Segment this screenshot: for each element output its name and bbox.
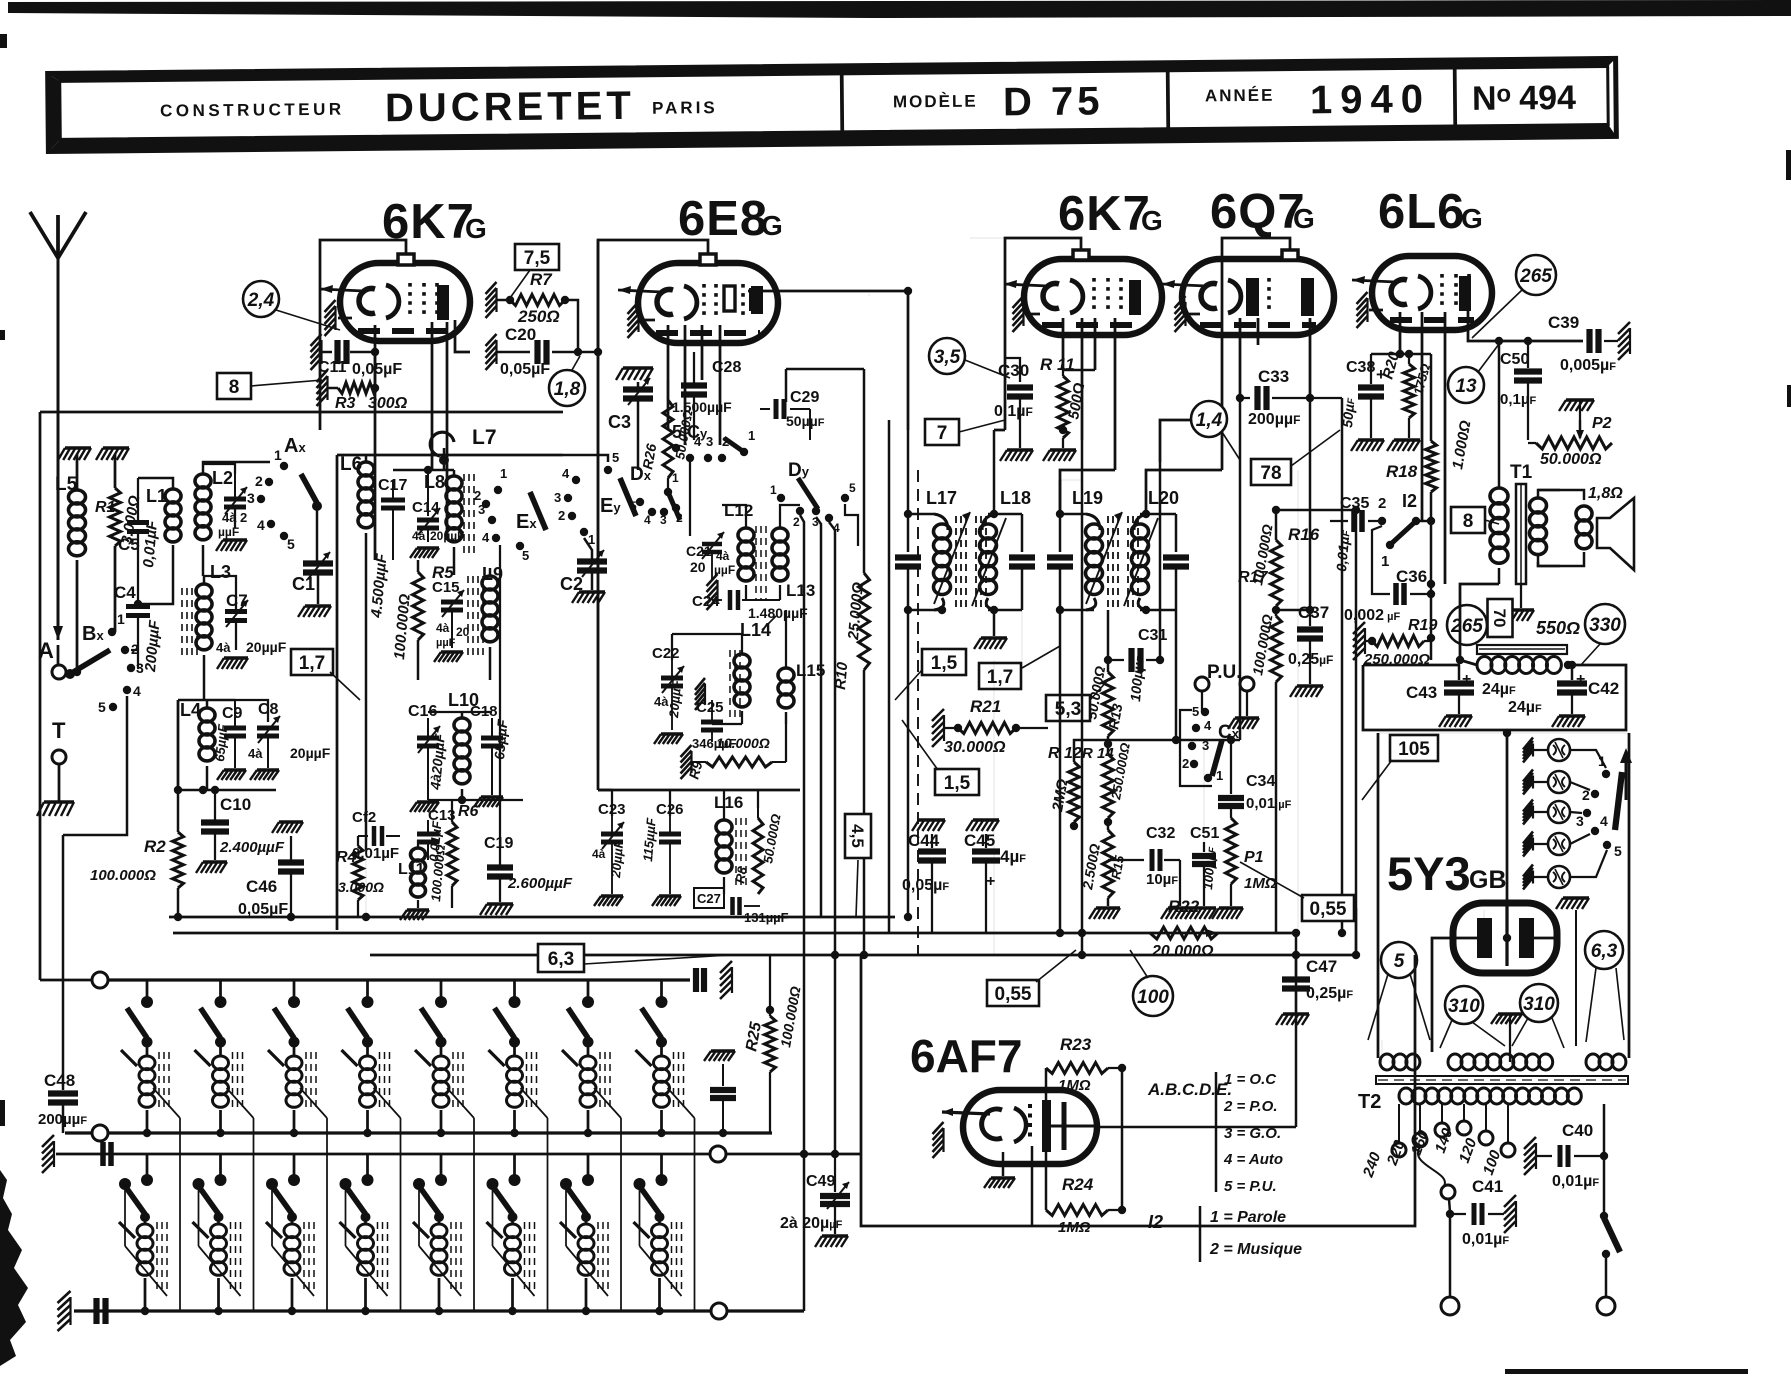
capacitor C-L19 (1059, 514, 1062, 552)
trimmer C6 (224, 497, 246, 502)
bank row1 unit7 lever (568, 1008, 588, 1038)
scan artifact top bar (8, 0, 1791, 18)
svg-text:I2: I2 (1148, 1212, 1163, 1232)
bank row1 unit4 lever (348, 1008, 368, 1038)
bank row1 unit1 core dashes (158, 1052, 160, 1110)
svg-text:1MΩ: 1MΩ (1058, 1077, 1091, 1094)
boxed 7 (925, 419, 959, 445)
circled 1,4 (1191, 401, 1227, 437)
svg-text:R1: R1 (95, 499, 116, 516)
wire L18 ground (993, 610, 996, 636)
coil L2 (202, 464, 205, 474)
bank row2 unit2 bottom (217, 1278, 220, 1311)
svg-text:1: 1 (770, 483, 777, 497)
bank row2 unit1 coil (144, 1217, 147, 1224)
svg-text:C41: C41 (1472, 1177, 1503, 1196)
svg-text:T1: T1 (1510, 462, 1533, 483)
svg-text:8: 8 (229, 377, 240, 398)
wire V1 screen lead (431, 322, 434, 470)
switch Dy lever (798, 478, 818, 509)
svg-text:C45: C45 (964, 831, 995, 850)
IF can L17-L18 top wire (908, 513, 934, 516)
switch Ax contact 3 (257, 495, 265, 503)
svg-text:R18: R18 (1386, 462, 1418, 481)
svg-text:C19: C19 (484, 835, 513, 852)
coil L9 (489, 568, 492, 576)
capacitor C46 (278, 859, 304, 865)
boxed 1,5 b (935, 769, 979, 795)
svg-text:0,05µF: 0,05µF (352, 361, 402, 378)
bus1 y980 (92, 978, 690, 981)
wire Ey top (563, 455, 608, 462)
legend bar1 (1215, 1072, 1218, 1192)
bank row1 unit5 bottom (440, 1110, 443, 1133)
svg-text:L12: L12 (724, 501, 753, 520)
svg-text:C20: C20 (505, 325, 536, 344)
svg-text:4à: 4à (412, 529, 426, 543)
switch Cx contact 5 (1201, 708, 1209, 716)
wire C26 stub (669, 790, 671, 816)
wire V1 cathode down (374, 325, 377, 560)
svg-text:3: 3 (706, 434, 713, 449)
hatch C24 (707, 574, 718, 610)
svg-text:50.000Ω: 50.000Ω (1540, 451, 1602, 468)
bank row2 unit7 lever (566, 1186, 586, 1214)
svg-text:C48: C48 (44, 1071, 75, 1090)
resistor R16 (1275, 510, 1278, 540)
leader 18 (572, 356, 580, 370)
svg-text:R16: R16 (1288, 525, 1320, 544)
wire left box bottom (39, 412, 41, 980)
wire L17 bottom (908, 609, 942, 612)
scan artifact left notch (0, 34, 7, 48)
wire R23R24 right (1121, 1068, 1124, 1210)
bank row1 unit7 stub (587, 980, 590, 998)
switch Dy contacts (777, 494, 785, 502)
wire C38-R20 top (1371, 353, 1431, 356)
svg-text:5: 5 (1192, 704, 1199, 719)
bank row2 unit6 core dashes (524, 1222, 526, 1290)
bus row1 bottom y1133 (65, 1131, 772, 1134)
boxed 1,7 left (291, 649, 333, 675)
leader 78 (1291, 430, 1340, 466)
bank row2 unit7 stub (587, 1154, 590, 1176)
coil L6 (365, 455, 368, 462)
wire L18 bottom (988, 609, 1022, 612)
svg-text:L17: L17 (926, 488, 957, 508)
ground C23 (601, 894, 623, 897)
svg-text:1940: 1940 (1310, 77, 1431, 122)
coil L13 (779, 522, 781, 528)
wire V3 grid cap loop (1005, 238, 1081, 330)
bank row2 unit5 stub (440, 1154, 443, 1176)
svg-text:4à: 4à (716, 549, 730, 563)
vertical x804 (800, 515, 804, 1311)
svg-text:P.U.: P.U. (1207, 662, 1242, 683)
svg-text:3.000Ω: 3.000Ω (338, 879, 384, 895)
bank row1 unit6 lever (495, 1008, 515, 1038)
svg-text:1,7: 1,7 (299, 653, 325, 674)
svg-text:ANNÉE: ANNÉE (1205, 86, 1275, 106)
bank row2 unit6 stub (513, 1154, 516, 1176)
resistor R13 (1103, 672, 1114, 736)
svg-text:1,8: 1,8 (554, 379, 581, 400)
tube V5 hatch (1357, 292, 1368, 328)
bank row2 unit4 core dashes (377, 1222, 379, 1290)
bank row1 unit6 bottom (513, 1110, 516, 1133)
wire B+ down (1506, 730, 1509, 900)
leader 63box (584, 955, 730, 964)
boxed 1,7 b (979, 663, 1021, 689)
switch Bx contact 5 (109, 703, 117, 711)
vertical x821 (816, 517, 821, 917)
ground C16 (417, 800, 439, 803)
svg-text:R2: R2 (144, 837, 166, 856)
svg-text:L7: L7 (472, 426, 497, 449)
tube V4 hatch (1175, 296, 1186, 332)
hatch R7 (486, 282, 497, 318)
node C20-grid (574, 348, 582, 356)
wire V3 plate down (1114, 318, 1117, 470)
svg-text:5: 5 (1614, 843, 1622, 859)
tuner box outline (40, 411, 563, 414)
tube V4 cathode lead (1187, 313, 1200, 316)
wire R16 top (1276, 509, 1356, 512)
wire L16 stub (723, 790, 725, 814)
wire Dy5 (845, 504, 858, 546)
svg-text:1,5: 1,5 (931, 653, 958, 674)
wire L20 grid up (1146, 470, 1222, 514)
coil L18 (982, 514, 996, 530)
boxed 0,55 left (987, 980, 1039, 1006)
lamp 1 wire (1570, 750, 1606, 768)
wire left down to C48 (62, 835, 65, 980)
svg-text:C44: C44 (908, 831, 940, 850)
svg-text:5: 5 (287, 536, 295, 552)
node R3 right (371, 384, 379, 392)
wire C32 (1108, 859, 1130, 861)
resistor R3 (328, 387, 338, 390)
legend bar2 (1199, 1206, 1202, 1262)
svg-text:C9: C9 (222, 705, 243, 722)
svg-text:2: 2 (558, 508, 565, 523)
leaders 310 (1440, 1020, 1452, 1048)
tube V7 gnd lead (1002, 1152, 1005, 1176)
coil L14 (741, 648, 743, 654)
circled 2,4 (243, 281, 279, 317)
svg-text:C10: C10 (220, 795, 251, 814)
terminals PU (1195, 677, 1209, 691)
resistor R20 (1408, 354, 1410, 364)
svg-text:4,5: 4,5 (848, 824, 867, 848)
terminal T ground (58, 764, 61, 802)
wire V3 screen down (1081, 318, 1084, 440)
circled 100 (1133, 976, 1173, 1016)
wire L12 top stub (722, 505, 746, 522)
svg-text:4à: 4à (592, 847, 606, 861)
bank row2 unit7 bottom (585, 1278, 588, 1311)
slash L18 (972, 518, 1006, 606)
bank row2 unit5 lever (419, 1186, 439, 1214)
circled 1,8 (549, 370, 585, 406)
svg-text:3: 3 (812, 515, 819, 529)
svg-text:G: G (761, 210, 783, 241)
svg-text:4 = Auto: 4 = Auto (1223, 1151, 1283, 1168)
wire R17-C37 (1276, 609, 1310, 612)
slash L20 (1124, 518, 1158, 606)
wire V2 plate to L17 (868, 294, 870, 296)
svg-text:C34: C34 (1246, 773, 1275, 790)
ground C2 (579, 590, 605, 593)
wire L10 top (428, 711, 492, 713)
bank row2 unit1 branch (124, 1184, 126, 1246)
leader 75 (510, 270, 530, 298)
svg-text:C51: C51 (1190, 825, 1219, 842)
dial lamp 5 (1523, 865, 1533, 890)
resistor R21 (932, 709, 944, 747)
scan artifact left blob (0, 1170, 28, 1366)
svg-text:5: 5 (1394, 951, 1405, 972)
svg-text:6K7: 6K7 (1058, 187, 1151, 241)
svg-text:200µµF: 200µµF (1248, 411, 1300, 428)
svg-text:C32: C32 (1146, 825, 1175, 842)
svg-text:G: G (1293, 203, 1315, 234)
coil L15 (785, 662, 787, 668)
svg-text:265: 265 (1519, 266, 1552, 287)
wire x1298 down (1297, 470, 1299, 933)
switch Bx contact 4 (123, 686, 131, 694)
resistor R7 (497, 299, 510, 302)
ground C6 (223, 538, 247, 541)
svg-text:4à: 4à (222, 510, 237, 525)
svg-text:1: 1 (748, 428, 755, 443)
tube V7 6AF7 (963, 1090, 1097, 1164)
svg-text:C22: C22 (652, 645, 680, 662)
wire spk bot (1538, 552, 1584, 566)
switch Dx contacts (636, 498, 644, 506)
svg-text:Dx: Dx (630, 464, 652, 485)
bank row1 unit3 lever (274, 1008, 294, 1038)
svg-text:C27: C27 (697, 891, 721, 906)
node C39a (1495, 337, 1503, 345)
wire R12 top (1074, 740, 1240, 748)
bus row2 start (42, 1135, 54, 1173)
bank row1 unit2 lever (201, 1008, 221, 1038)
wire L4-C10 (178, 789, 276, 792)
tube V3 cathode lead (1025, 313, 1040, 316)
bank row2 unit2 pivot (193, 1178, 205, 1190)
svg-text:R22: R22 (1168, 897, 1200, 916)
bank row2 unit6 branch (492, 1184, 494, 1246)
ground C19 (487, 902, 513, 905)
wire PU right gnd (1246, 691, 1248, 716)
dashed gang line (917, 470, 919, 955)
switch Ex contacts (488, 516, 496, 524)
bus y917 (169, 916, 895, 919)
bank row1 unit2 stub (219, 980, 222, 998)
boxed 70 (1488, 599, 1513, 637)
bus y933 (173, 932, 1296, 935)
T2 secondary 6,3V (1586, 1054, 1600, 1070)
svg-text:20µµF: 20µµF (430, 529, 465, 543)
ground 6,3 (1563, 896, 1589, 899)
vertical x835 (829, 522, 835, 1154)
svg-text:A.B.C.D.E.: A.B.C.D.E. (1147, 1080, 1232, 1099)
leaders 63 (1586, 968, 1596, 1042)
wire choke-left-joint (1363, 664, 1460, 667)
pot P2 (1536, 437, 1612, 449)
svg-text:4: 4 (644, 513, 651, 527)
bank row1 unit4 stub (366, 980, 369, 998)
bus y955 right (1355, 908, 1358, 955)
svg-text:R7: R7 (530, 270, 553, 289)
capacitor C45 (973, 818, 999, 821)
svg-text:2: 2 (1182, 756, 1189, 771)
svg-text:1: 1 (274, 447, 282, 463)
wire Cy4 to C21 (689, 462, 691, 536)
dial lamp 3 (1523, 800, 1533, 825)
svg-text:R3: R3 (335, 395, 356, 412)
svg-text:1,7: 1,7 (987, 667, 1013, 688)
bank row1 unit4 wire (366, 1042, 369, 1056)
svg-text:2 = Musique: 2 = Musique (1209, 1241, 1302, 1258)
circled 3,5 (929, 338, 965, 374)
bank row1 unit7 bottom (587, 1110, 590, 1133)
svg-text:C46: C46 (246, 877, 277, 896)
svg-text:C37: C37 (1298, 603, 1329, 622)
svg-text:L20: L20 (1148, 488, 1179, 508)
svg-text:5: 5 (522, 548, 529, 563)
ground C8 (257, 768, 279, 771)
bank row2 unit8 lever (640, 1186, 660, 1214)
svg-text:310: 310 (1523, 994, 1555, 1015)
bank row1 unit1 wire (146, 1042, 149, 1056)
bank row2 unit7 pivot (560, 1178, 572, 1190)
svg-text:R23: R23 (1060, 1035, 1092, 1054)
switch mains (1603, 1156, 1606, 1212)
wire C4 to Bx contacts (131, 649, 138, 651)
core L16 (735, 818, 737, 890)
svg-text:265: 265 (1450, 616, 1483, 637)
svg-text:20.000Ω: 20.000Ω (1151, 943, 1214, 960)
wire L18 grid up (993, 430, 996, 514)
wire L2 top (203, 462, 270, 464)
svg-text:L5: L5 (55, 474, 78, 495)
svg-text:20µµF: 20µµF (246, 639, 287, 655)
svg-text:L18: L18 (1000, 488, 1031, 508)
bus1 end cap (693, 968, 699, 992)
wire V2 plate right (748, 290, 908, 293)
bank row1 unit2 slash (195, 1050, 211, 1066)
wire x994 down (993, 660, 995, 955)
T2 mains wavy (1418, 1147, 1445, 1186)
bank row2 unit2 slash (193, 1222, 209, 1238)
bank row1 unit8 core dashes (673, 1052, 675, 1110)
bank row2 unit6 coil (511, 1217, 514, 1224)
resistor R1 (114, 454, 117, 488)
bank row1 unit1 coil (139, 1056, 155, 1070)
ground C51 (1192, 906, 1216, 909)
scan artifact right edge ticks (1786, 150, 1791, 180)
node V1 cathode junction (371, 348, 379, 356)
bank row1 unit3 bottom (293, 1110, 296, 1133)
antenna (30, 212, 58, 258)
ground C15 (441, 650, 463, 653)
svg-text:No494: No494 (1472, 79, 1576, 118)
svg-text:1 = Parole: 1 = Parole (1210, 1209, 1286, 1226)
svg-text:1: 1 (500, 466, 507, 481)
switch Ax lever (301, 474, 317, 503)
circled 6,3 ps (1585, 931, 1623, 969)
svg-text:70: 70 (1490, 609, 1509, 628)
wire V5 plate (1468, 310, 1583, 341)
svg-text:P2: P2 (1592, 415, 1612, 432)
switch Bx contact 2 (121, 646, 129, 654)
dial lamp 2 (1523, 770, 1533, 795)
circled 265 mid (1447, 605, 1487, 645)
leader 45 (856, 860, 858, 917)
scan artifact bottom right line (1505, 1369, 1748, 1374)
filter choke bar (1477, 645, 1567, 654)
ground C22 (661, 732, 683, 735)
bank row2 unit6 slash (487, 1222, 503, 1238)
svg-text:5: 5 (849, 481, 856, 495)
coil L19 (1086, 514, 1100, 530)
wire A to Bx (66, 671, 77, 674)
svg-text:4: 4 (482, 530, 490, 545)
ground C18 (481, 795, 503, 798)
svg-text:µµF: µµF (218, 525, 239, 539)
boxed 78 (1251, 459, 1291, 485)
bank row1 unit3 stub (293, 980, 296, 998)
bank row2 unit3 branch (271, 1184, 273, 1246)
tube V3 hatch (1013, 296, 1024, 332)
capacitor C5 (137, 478, 139, 521)
resistor R26 (663, 400, 673, 478)
leader 13 (1478, 344, 1499, 372)
core L8 (463, 474, 465, 556)
bank row1 unit5 tap (447, 1088, 474, 1118)
svg-text:C33: C33 (1258, 367, 1289, 386)
leader 17b (1022, 646, 1060, 668)
bank row1 unit2 bottom (219, 1110, 222, 1133)
switch Cx contact 1 (1204, 774, 1212, 782)
wire x1108 mid (1107, 610, 1110, 660)
svg-text:13: 13 (1455, 376, 1477, 397)
ground R11 (1050, 448, 1076, 451)
bank row1 unit2 tap (227, 1088, 254, 1118)
svg-text:R 12: R 12 (1048, 745, 1082, 762)
capacitor C44 (919, 818, 945, 821)
ground C30 (1007, 448, 1033, 451)
bank row1 unit5 core dashes (452, 1052, 454, 1110)
svg-text:C42: C42 (1588, 679, 1619, 698)
svg-text:1.480µµF: 1.480µµF (748, 605, 808, 621)
leader 330 (1580, 644, 1600, 666)
ground mid310 (1498, 1012, 1522, 1015)
boxed 1,5 a (922, 649, 966, 675)
variable cap C2 (584, 538, 592, 560)
bank row2 unit8 coil (658, 1217, 661, 1224)
bank row1 unit6 core dashes (526, 1052, 528, 1110)
bus mid trimmer (711, 1049, 735, 1052)
svg-text:T2: T2 (1358, 1091, 1381, 1113)
switch Cx contact 4 (1192, 724, 1200, 732)
svg-text:3: 3 (136, 660, 144, 676)
bank row2 unit4 branch (345, 1184, 347, 1246)
svg-text:1MΩ: 1MΩ (1058, 1219, 1091, 1236)
tube V1 hatch (325, 300, 336, 336)
